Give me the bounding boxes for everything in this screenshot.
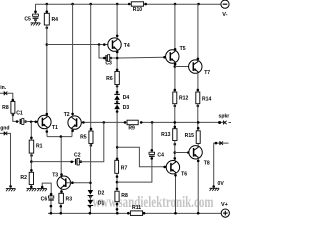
node: spkr return pin xyxy=(215,142,218,145)
node: C5 top pin xyxy=(34,10,37,13)
terminal V- xyxy=(221,0,229,18)
wire: T4 collector to top rail xyxy=(116,4,118,39)
transistor T1 xyxy=(38,115,58,131)
node: T1 collector pin xyxy=(46,113,49,116)
transistor T8 xyxy=(189,146,210,167)
node: rail / R7 junction xyxy=(116,212,119,215)
node: rail / R3 junction xyxy=(60,212,63,215)
svg-text:R9: R9 xyxy=(128,125,135,131)
wire: T5 emitter down to R12 xyxy=(174,63,176,92)
node: C2 left pin xyxy=(70,161,73,164)
node: R7 / C4 return junction xyxy=(116,181,119,184)
node: R5 top pin xyxy=(90,128,93,131)
wire: R14 down to mid wire and R15 xyxy=(197,104,199,131)
wire: T7 base wire xyxy=(175,66,193,68)
svg-text:T1: T1 xyxy=(52,125,58,131)
capacitor C3 xyxy=(103,55,112,67)
terminal gnd jack xyxy=(4,131,7,135)
svg-text:R1: R1 xyxy=(36,144,43,150)
resistor R13 xyxy=(161,129,177,146)
node: R10 left pin xyxy=(128,3,131,6)
node: R1 top pin xyxy=(30,137,33,140)
node: C3 branch junction xyxy=(98,43,101,46)
wire: T4 emitter down to R6 xyxy=(116,51,118,72)
node: T4 collector pin xyxy=(116,35,119,38)
wire: C3 to T4 emitter column and T5 base xyxy=(110,56,164,59)
terminal V+ xyxy=(221,202,229,217)
transistor T2 xyxy=(64,112,82,129)
wire: emitter join wire xyxy=(47,136,72,138)
wire: R4 top lead xyxy=(46,4,48,13)
wire: R5 from top rail xyxy=(90,4,92,131)
resistor R9 xyxy=(124,120,143,131)
node: R11 right pin xyxy=(143,212,146,215)
node: rail / C6 junction xyxy=(50,212,53,215)
node: R2 bottom pin xyxy=(30,186,33,189)
diode D4 xyxy=(114,94,129,101)
transistor T5 xyxy=(166,46,186,63)
node: T5 collector pin xyxy=(174,48,177,51)
svg-text:C2: C2 xyxy=(74,152,81,158)
svg-text:D3: D3 xyxy=(123,105,130,111)
wire: T8 collector to R15 xyxy=(197,143,199,146)
svg-text:R10: R10 xyxy=(133,7,143,13)
wire: rail corner down to C5 xyxy=(35,4,37,14)
wire: R8 to C1 xyxy=(13,113,19,121)
node: R4 top pin xyxy=(46,10,49,13)
node: C6 ground link pin xyxy=(41,186,44,189)
svg-text:gnd: gnd xyxy=(0,126,9,132)
svg-text:D2: D2 xyxy=(98,190,105,196)
node: spkr pin xyxy=(218,121,221,124)
wire: T6 base feed xyxy=(117,147,168,167)
wire: R2 to ground xyxy=(30,185,32,189)
node: mid wire / R12-R13 junction xyxy=(174,121,177,124)
resistor R7 xyxy=(115,160,128,173)
wire: R1-R2 junction to C2 xyxy=(31,161,74,163)
node: top rail / T5 collector branch xyxy=(174,3,177,6)
node: rail / D1 junction xyxy=(89,212,92,215)
wire: T1 emitter down xyxy=(46,128,48,136)
transistor T7 xyxy=(189,60,211,76)
resistor R8 xyxy=(2,101,15,116)
node: R1 branch junction xyxy=(30,121,33,124)
wire: C1 to T1 base xyxy=(24,121,42,123)
node: C6 bottom pin xyxy=(50,205,53,208)
node: T6 collector pin xyxy=(174,157,177,160)
node: R7 bottom pin xyxy=(116,175,119,178)
node: T3 base pin xyxy=(71,181,74,184)
resistor R8 xyxy=(115,191,128,202)
ground 0V xyxy=(209,188,219,191)
wire: D2 to D1 xyxy=(89,196,91,201)
wire: T3 emitter to R3 xyxy=(60,189,62,193)
node: R14 top pin xyxy=(197,89,200,92)
node: junction to T6 base feed xyxy=(116,146,119,149)
svg-text:R8: R8 xyxy=(121,193,128,199)
node: gnd drop to ground xyxy=(9,185,12,188)
wire: R4 down to T4 base junction and T1 collector xyxy=(46,25,48,114)
svg-text:D4: D4 xyxy=(123,95,130,101)
diode D1 xyxy=(88,200,105,207)
ground below C5 xyxy=(31,23,41,26)
transistor T3 xyxy=(52,172,70,189)
wire: C3 branch from T4 base xyxy=(99,45,104,59)
wire: C6 top link to ground xyxy=(42,183,51,196)
node: R13 / T8 base junction xyxy=(174,151,177,154)
node: T8 emitter pin xyxy=(197,160,200,163)
wire: R5 down to bias junction xyxy=(90,144,92,191)
svg-text:T6: T6 xyxy=(181,171,187,177)
node: R7 top pin xyxy=(116,158,119,161)
wire: R1 to R2 xyxy=(30,153,32,172)
svg-text:T3: T3 xyxy=(52,172,58,178)
wire: R3 to bottom rail xyxy=(60,203,62,213)
capacitor C1 xyxy=(16,111,27,125)
node: top rail / T4 collector branch xyxy=(116,3,119,6)
svg-text:T5: T5 xyxy=(180,46,186,52)
svg-text:R5: R5 xyxy=(80,135,87,141)
node: D1 bottom pin xyxy=(89,205,92,208)
wire: V- top supply rail xyxy=(36,3,221,5)
node: pin above rail xyxy=(116,208,119,211)
svg-text:R6: R6 xyxy=(106,76,113,82)
node: C4 top pin xyxy=(151,149,154,152)
svg-text:R3: R3 xyxy=(66,197,73,203)
wire: C2 to riser up to mid wire xyxy=(80,122,104,161)
node: T6 emitter pin xyxy=(174,174,177,177)
svg-text:www.sandielektronik.com: www.sandielektronik.com xyxy=(93,194,214,211)
svg-text:R2: R2 xyxy=(20,175,27,181)
svg-text:T8: T8 xyxy=(204,161,210,167)
terminal in jack xyxy=(4,91,7,95)
wire: T7 emitter down to R14 xyxy=(197,73,199,92)
node: top rail / T7 collector branch xyxy=(197,3,200,6)
node: R3 bottom pin xyxy=(60,205,63,208)
wire: T5 collector to top rail xyxy=(174,4,176,51)
resistor R5 xyxy=(80,131,93,147)
wire: C4 bottom down and left to R7 junction xyxy=(117,157,152,182)
resistor R12 xyxy=(173,92,189,107)
svg-text:R4: R4 xyxy=(52,17,59,23)
svg-text:R13: R13 xyxy=(161,132,171,138)
resistor R6 xyxy=(106,69,119,88)
wire: T8 base wire xyxy=(175,152,193,154)
wire: D3 down crossing mid wire to R7 area xyxy=(116,109,118,160)
node: R15 top pin xyxy=(197,127,200,130)
wire: T2 emitter down xyxy=(71,129,73,137)
diode D3 xyxy=(114,103,129,111)
svg-text:R7: R7 xyxy=(121,166,128,172)
wire: speaker return to 0V ground xyxy=(214,143,229,186)
node: C3 / T4 emitter junction xyxy=(116,57,119,60)
wire: T6 emitter to bottom rail xyxy=(175,173,177,213)
node: 0V drop pin xyxy=(212,185,215,188)
node: R8 bottom pin xyxy=(116,203,119,206)
node: D3 bottom pin xyxy=(116,110,119,113)
capacitor C4 xyxy=(149,152,164,158)
transistor T4 xyxy=(108,38,130,51)
node: T5 emitter / T7 base junction xyxy=(174,65,177,68)
node: T5 base pin xyxy=(163,56,166,59)
node: C4 bottom pin xyxy=(151,157,154,160)
svg-text:T7: T7 xyxy=(204,70,210,76)
resistor R1 xyxy=(29,140,42,157)
resistor R10 xyxy=(131,2,143,13)
node: R5 / T3 base / D2 junction xyxy=(89,182,92,185)
svg-text:C1: C1 xyxy=(16,111,23,117)
svg-text:0V: 0V xyxy=(218,181,225,187)
node: T6 base pin xyxy=(163,166,166,169)
svg-text:C6: C6 xyxy=(41,197,48,203)
capacitor C6 xyxy=(41,196,54,203)
wire: gnd lead xyxy=(0,133,11,186)
svg-text:R12: R12 xyxy=(179,95,189,101)
wire: R6 to D4 xyxy=(116,85,118,96)
node: T3 collector pin xyxy=(60,173,63,176)
node: R13 top pin xyxy=(174,126,177,129)
wire: R8 to bottom rail xyxy=(116,202,118,214)
node: T4 base pin xyxy=(103,43,106,46)
wire: C6 to bottom rail xyxy=(50,201,52,214)
node: R8 top pin xyxy=(12,99,15,102)
wire: input lead xyxy=(0,93,13,101)
svg-text:T4: T4 xyxy=(124,43,130,49)
diode D2 xyxy=(88,190,105,196)
node: R10 right pin xyxy=(144,3,147,6)
resistor R2 xyxy=(20,172,33,184)
wire: C5 to ground xyxy=(35,19,37,23)
node: T8 base pin xyxy=(187,151,190,154)
node: T1 emitter pin xyxy=(46,130,49,133)
node: D4-D3 junction xyxy=(116,101,119,104)
node: T7 collector pin xyxy=(197,58,200,61)
node: D4 top pin xyxy=(116,91,119,94)
node: R12 top pin xyxy=(174,89,177,92)
node: mid wire / R14-R15 junction xyxy=(197,121,200,124)
resistor R11 xyxy=(130,205,142,215)
ground at input xyxy=(6,189,16,192)
node: C2 riser junction xyxy=(103,121,106,124)
node: R2 top pin xyxy=(30,169,33,172)
node: R11 left pin xyxy=(127,212,130,215)
transistor T6 xyxy=(166,161,187,178)
capacitor C2 xyxy=(74,152,82,165)
svg-text:R8: R8 xyxy=(2,105,9,111)
resistor R14 xyxy=(196,92,212,107)
svg-text:C3: C3 xyxy=(105,61,112,67)
node: T2 emitter pin xyxy=(71,130,74,133)
wire: T4 base wire xyxy=(47,44,113,46)
node: top rail / T2 collector branch xyxy=(71,3,74,6)
wire: T8 emitter to bottom rail xyxy=(197,159,199,214)
node: T5 emitter pin xyxy=(174,63,177,66)
svg-text:T2: T2 xyxy=(64,112,70,118)
svg-text:C5: C5 xyxy=(24,17,31,23)
wire: down to T3 collector xyxy=(60,137,62,177)
wire: D4 to D3 xyxy=(116,100,118,105)
wire: C4 riser xyxy=(151,122,153,152)
node: R8 top pin xyxy=(116,188,119,191)
wire: T3 base wire xyxy=(66,182,90,184)
svg-text:in.: in. xyxy=(0,85,7,91)
node: C6 top pin xyxy=(50,193,53,196)
node: T1 base pin xyxy=(35,121,38,124)
node: T2 collector pin xyxy=(71,113,74,116)
node: T3 emitter pin xyxy=(60,190,63,193)
wire: T7 collector to top rail xyxy=(197,4,199,61)
terminal spkr jack xyxy=(223,121,226,125)
wire: R13 down to T6 collector xyxy=(174,141,176,161)
node: D2-D1 junction xyxy=(89,195,92,198)
svg-text:D1: D1 xyxy=(98,200,105,206)
svg-text:R11: R11 xyxy=(132,205,141,211)
node: emitter join / T3 junction xyxy=(60,135,63,138)
terminal spkr return jack xyxy=(220,141,223,145)
capacitor C5 xyxy=(24,14,38,23)
resistor R15 xyxy=(185,131,201,144)
node: C4 riser junction xyxy=(151,121,154,124)
wire: R12 down to mid wire and R13 xyxy=(174,104,176,129)
wire: T2 collector to top rail xyxy=(72,4,74,117)
ground below R2 xyxy=(27,189,37,192)
resistor R3 xyxy=(59,193,72,203)
wire: input stage output / driver wire xyxy=(77,121,231,123)
svg-text:R14: R14 xyxy=(202,97,212,103)
node: T2 base pin xyxy=(82,121,85,124)
node: top rail / R5 branch xyxy=(89,3,92,6)
svg-text:R15: R15 xyxy=(185,133,195,139)
wire: R1 branch down xyxy=(30,122,32,140)
wire: R7 to R8 xyxy=(116,173,118,191)
ground for C6 xyxy=(37,189,47,192)
node: rail / T8 emitter junction xyxy=(197,212,200,215)
svg-text:V-: V- xyxy=(222,12,227,18)
node: rail / T6 emitter junction xyxy=(174,212,177,215)
wire: D1 to bottom rail xyxy=(89,206,91,214)
node: R4 / T4 base junction xyxy=(46,43,49,46)
wire: V+ bottom supply rail xyxy=(48,212,221,214)
resistor R4 xyxy=(44,13,58,29)
svg-text:spkr: spkr xyxy=(219,113,230,119)
svg-text:C4: C4 xyxy=(157,153,164,159)
svg-text:V+: V+ xyxy=(221,202,228,208)
node: top rail / R4 junction xyxy=(46,3,49,6)
node: T4 emitter pin xyxy=(116,51,119,54)
node: R1-R2 / C2 junction xyxy=(30,160,33,163)
